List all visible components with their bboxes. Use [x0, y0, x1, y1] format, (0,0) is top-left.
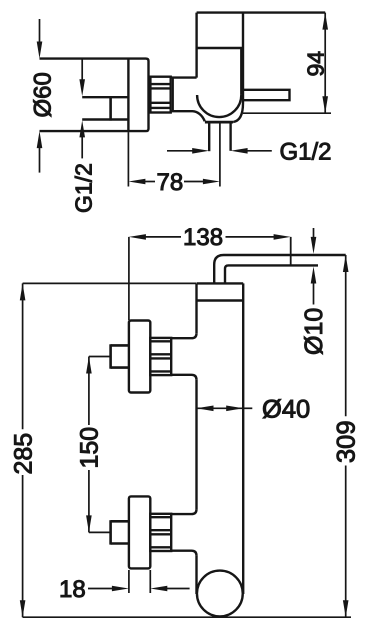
shower pipe end cap with 138 extension — [290, 237, 292, 267]
bottom extension line — [23, 616, 351, 618]
dim G1/2 outlet left arrow — [167, 150, 195, 152]
dim 138 line left with arrow — [143, 236, 181, 238]
dim 309 line lower — [345, 466, 347, 618]
dim 150 line upper — [88, 357, 90, 426]
svg-text:94: 94 — [303, 51, 329, 77]
outlet pipe right line — [229, 122, 231, 151]
hex nut (top view) — [150, 77, 170, 113]
body (front view) top edge — [197, 282, 244, 284]
G1/2 wall stub bottom edge — [82, 118, 128, 120]
svg-text:309: 309 — [333, 420, 361, 463]
dim G1/2 wall lower arrow — [81, 134, 83, 159]
dim 94 bottom extension — [243, 112, 331, 114]
upper flange — [129, 321, 150, 393]
lower union tube top edge with fillet — [171, 509, 196, 514]
dim 78 left extension (flange face) — [127, 132, 129, 186]
flange wall face line — [127, 59, 129, 132]
shower pipe inner line with Ø10 extension — [225, 265, 318, 283]
dim G1/2 wall upper arrow — [81, 59, 83, 82]
G1/2 wall stub top edge — [82, 96, 128, 98]
G1/2 wall stub end cap — [109, 96, 112, 121]
dome bottom arc — [197, 95, 241, 117]
svg-text:150: 150 — [76, 427, 104, 469]
connector tube bottom edge curving to outlet boss — [172, 111, 205, 121]
svg-text:Ø10: Ø10 — [300, 308, 328, 355]
dim Ø60 lower arrow — [39, 145, 41, 173]
body left edge segment 1 — [195, 283, 197, 333]
dim 78 line left with arrow — [142, 181, 155, 183]
svg-text:Ø40: Ø40 — [262, 396, 310, 424]
dim Ø60 upper arrow — [39, 19, 41, 45]
svg-text:138: 138 — [183, 224, 223, 251]
dim 285 line lower — [22, 475, 24, 617]
dim 150 lower extension — [89, 531, 111, 533]
dim 150 upper extension — [89, 356, 111, 358]
svg-text:18: 18 — [59, 576, 86, 603]
dim 18 left extension — [128, 570, 130, 593]
body block (top view) left edge — [195, 13, 197, 78]
dim 94 line — [324, 13, 326, 114]
dim 285 line upper — [22, 283, 24, 429]
svg-text:G1/2: G1/2 — [71, 163, 97, 213]
body right edge curving into outlet boss — [233, 13, 243, 122]
svg-text:Ø60: Ø60 — [30, 72, 57, 117]
lower union tube bottom edge with fillet — [171, 551, 196, 556]
shower pipe outer line with 309 extension — [214, 255, 346, 283]
dim Ø10 lower arrow — [313, 280, 315, 304]
upper hex nut — [150, 338, 171, 375]
connector tube end cap line — [172, 77, 174, 112]
dim Ø40 arrow line — [197, 407, 244, 409]
dim 18 right line with arrow — [167, 588, 190, 590]
body right edge — [242, 283, 244, 594]
dim 150 line lower — [88, 470, 90, 532]
dim 138 line right with arrow — [226, 236, 278, 238]
138 left extension line — [128, 237, 130, 320]
lever handle (top view) — [243, 90, 290, 100]
dim 309 line upper — [345, 255, 347, 416]
connector tube (top view) — [172, 76, 197, 78]
dim 78 line right with arrow — [184, 181, 207, 183]
dim 18 right extension — [149, 570, 151, 593]
outlet boss flat — [205, 121, 233, 124]
bottom sphere — [197, 571, 243, 617]
lower G1/2 stub — [111, 520, 129, 544]
285 top extension line — [23, 282, 196, 284]
svg-text:G1/2: G1/2 — [280, 138, 332, 165]
dim G1/2 outlet right arrow — [246, 150, 272, 152]
lower hex nut — [150, 514, 171, 551]
body seam line — [197, 299, 244, 301]
upper union tube top edge with fillet — [171, 333, 196, 338]
dim Ø10 upper arrow — [313, 228, 315, 240]
flange escutcheon (top view) outline with Ø60 extension lines — [40, 59, 149, 132]
dim 78 right extension (outlet centerline) — [219, 123, 221, 187]
svg-text:78: 78 — [157, 169, 184, 196]
body left edge segment 2 — [195, 380, 197, 509]
body left edge segment 3 — [195, 556, 197, 594]
lower flange — [129, 496, 150, 568]
outlet pipe left line — [208, 122, 210, 151]
svg-text:285: 285 — [9, 433, 37, 475]
upper union tube bottom edge with fillet — [171, 375, 196, 380]
cartridge cap seam — [197, 47, 243, 49]
body top edge with 94 extension — [197, 11, 326, 13]
upper G1/2 stub — [111, 344, 129, 368]
dim 18 left line with arrow — [88, 588, 114, 590]
dome right side — [240, 48, 242, 95]
